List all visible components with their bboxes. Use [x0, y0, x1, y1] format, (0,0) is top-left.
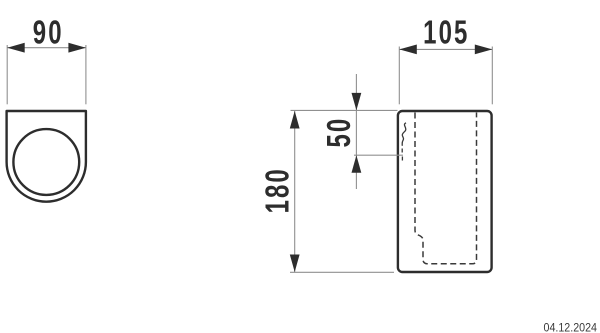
dim 180 arrow down [290, 255, 300, 273]
svg-text:50: 50 [322, 117, 359, 148]
dim 50 arrow up (below) [352, 155, 362, 173]
dim 90 dimension line [7, 47, 86, 49]
right view: holder body rectangle [398, 111, 492, 272]
dim 50 bottom extension line [354, 154, 403, 156]
dim 180 dimension line [294, 111, 296, 272]
dim 105 dimension line [399, 48, 492, 50]
bracket squiggle dashes [401, 149, 403, 161]
dim 90 extension line right [85, 45, 87, 104]
dim 180 top extension line (shared with dim 50) [291, 109, 398, 111]
svg-text:180: 180 [260, 167, 297, 213]
left view: tumbler front outline [7, 111, 86, 202]
svg-text:105: 105 [423, 15, 469, 52]
dim 105 arrow left [399, 45, 417, 55]
svg-text:90: 90 [33, 15, 64, 52]
left view: glass circle [13, 129, 79, 195]
dim 50 dimension line [355, 74, 357, 189]
dim 50 arrow down (above) [352, 93, 362, 111]
dim 180 bottom extension line [290, 271, 394, 273]
dim 105 extension line right [491, 47, 493, 105]
dim 90 arrow left [7, 43, 25, 53]
right view: hidden inner profile (dashed) [415, 113, 477, 264]
dim 180 arrow up [290, 111, 300, 129]
dim 90 arrow right [68, 43, 86, 53]
dim 105 arrow right [475, 45, 493, 55]
dim 105 extension line left [398, 47, 400, 105]
svg-text:04.12.2024: 04.12.2024 [543, 322, 597, 333]
dim 90 extension line left [6, 45, 8, 104]
right view: bracket squiggle [402, 123, 406, 146]
